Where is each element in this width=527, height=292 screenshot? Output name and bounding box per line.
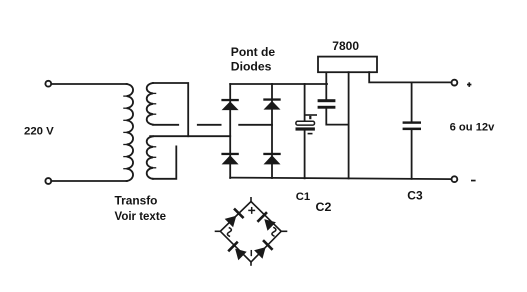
svg-text:7800: 7800: [332, 39, 359, 53]
transformer T1 primary winding: [124, 84, 133, 181]
ac mark right of package: [272, 228, 276, 236]
svg-text:C3: C3: [407, 189, 423, 203]
wire: upper winding bottom dash 1: [153, 124, 178, 126]
wire: bottom input to primary: [52, 180, 127, 182]
diode D4 (bridge right lower): [263, 153, 280, 165]
wire: bottom negative rail: [230, 178, 451, 180]
transformer T1 secondary upper winding: [147, 83, 156, 125]
svg-text:Transfo: Transfo: [115, 194, 158, 208]
regulator U1 output pin and wire to + terminal: [369, 72, 451, 82]
wire: secondary top to vertical drop: [153, 83, 188, 136]
svg-text:6 ou 12v: 6 ou 12v: [450, 121, 496, 133]
output terminal +: [452, 80, 458, 86]
svg-text:Diodes: Diodes: [231, 59, 272, 73]
label Transfo: [115, 194, 158, 208]
minus mark of package: [250, 251, 252, 256]
output terminal -: [452, 176, 458, 182]
wire: lower winding bottom stub: [153, 146, 176, 178]
input terminal bottom (220V): [45, 178, 51, 184]
diode lower-left of package: [227, 241, 246, 260]
diode D3 (bridge left lower): [221, 153, 238, 165]
label C1: [296, 191, 310, 203]
wire: center-tap mid rail to bridge: [150, 135, 230, 137]
regulator U1 ground pin: [348, 72, 350, 178]
svg-text:C2: C2: [316, 200, 332, 214]
diode upper-right of package: [257, 211, 276, 230]
bridge rectifier package symbol: [216, 198, 287, 265]
label 220 V: [24, 126, 54, 138]
wire: bridge left branch vertical: [229, 84, 231, 178]
label Voir texte: [115, 211, 167, 223]
capacitor C3: [403, 82, 421, 178]
wire: dash 3 to bridge right branch: [239, 124, 272, 126]
diamond outline: [216, 198, 287, 265]
label C2: [316, 200, 332, 214]
capacitor C2: [318, 72, 349, 125]
label 6 ou 12v: [450, 121, 496, 133]
label Pont de: [231, 45, 276, 59]
input terminal top (220V): [45, 81, 51, 87]
label C3: [407, 189, 423, 203]
regulator U1 7800 box: [318, 57, 377, 73]
plus mark of package: [249, 208, 254, 213]
wire: bridge top rail to regulator input: [230, 83, 327, 85]
diode D1 (bridge left upper): [221, 99, 238, 110]
plus polarity mark: [467, 82, 471, 87]
svg-text:C1: C1: [296, 191, 310, 203]
diode D2 (bridge right upper): [263, 98, 280, 109]
ac mark left of package: [227, 228, 231, 236]
svg-text:Pont de: Pont de: [231, 45, 276, 59]
svg-text:Voir texte: Voir texte: [115, 211, 167, 223]
wire: dash 2 (hop over vertical): [198, 124, 221, 126]
wire: top input to primary: [52, 83, 127, 85]
svg-text:220 V: 220 V: [24, 126, 54, 138]
capacitor C1 (electrolytic): [296, 84, 317, 178]
label 7800: [332, 39, 359, 53]
wire: bridge right branch vertical: [271, 84, 273, 178]
minus polarity mark: [471, 180, 476, 182]
label Diodes: [231, 59, 272, 73]
diode lower-right of package: [254, 239, 273, 258]
diode upper-left of package: [225, 208, 245, 228]
transformer T1 secondary lower winding: [147, 136, 156, 179]
